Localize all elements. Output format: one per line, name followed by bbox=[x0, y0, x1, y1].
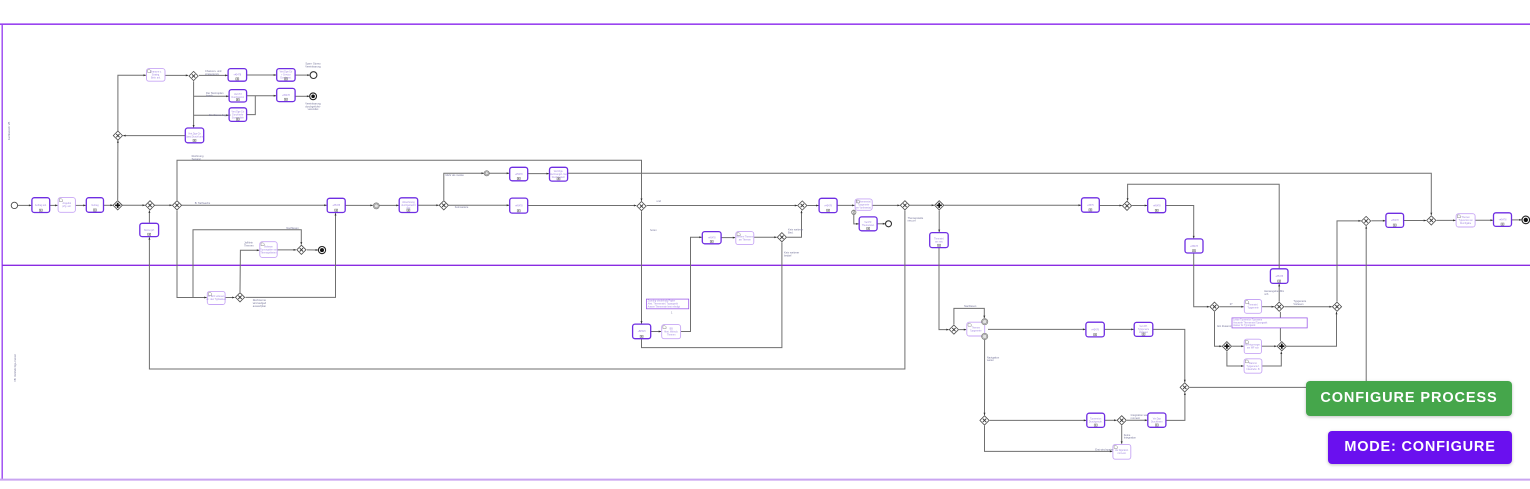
svg-text:nch: nch bbox=[1264, 292, 1269, 296]
svg-text:Bed.: Bed. bbox=[788, 230, 794, 234]
wire gwQ loop up boundary bbox=[954, 308, 984, 324]
wire T4 to T5 bbox=[247, 95, 277, 97]
svg-text:+#5478: +#5478 bbox=[1391, 220, 1399, 222]
task Abstimmung 15 bbox=[399, 198, 418, 213]
task upper 16 bbox=[510, 167, 528, 181]
task Chancen ermitteln A1 bbox=[147, 69, 166, 82]
wire boundary2 down to gwU bbox=[984, 340, 986, 415]
svg-text:Abrechnung: Abrechnung bbox=[402, 201, 415, 204]
svg-text:durchgefuehrt: durchgefuehrt bbox=[401, 204, 416, 207]
wire task17 to gwD top bbox=[568, 173, 1432, 215]
task P bbox=[1113, 444, 1131, 459]
svg-text:Anzusehr Themenstel Typorganik: Anzusehr Themenstel Typorganik bbox=[1233, 321, 1268, 324]
wire taskBB up to task21 bbox=[681, 237, 702, 331]
svg-text:Erst wird spater: Erst wird spater bbox=[1095, 447, 1113, 451]
svg-text:Rechnungsf.-Ver.: Rechnungsf.-Ver. bbox=[550, 173, 568, 176]
wire taskV up to gw2 bbox=[148, 211, 150, 223]
task G bbox=[1270, 269, 1288, 284]
svg-text:bearb.: bearb. bbox=[206, 94, 214, 98]
end event terminate top2 bbox=[310, 93, 317, 100]
task Storno T2 bbox=[228, 69, 247, 82]
task 42 bbox=[1386, 213, 1404, 227]
gateway U bbox=[980, 416, 989, 425]
wire gwN down to taskP bbox=[1121, 426, 1123, 444]
wire gwX2 to end bbox=[307, 249, 318, 251]
gateway D bbox=[1427, 216, 1436, 225]
svg-text:Vert.Dgs-Ctr: Vert.Dgs-Ctr bbox=[188, 133, 201, 136]
svg-text:+ Service: + Service bbox=[281, 74, 291, 77]
wire gw4 to task18 bbox=[449, 204, 509, 206]
svg-text:Vert.Prf.: Vert.Prf. bbox=[1139, 325, 1148, 328]
svg-text:Ein Zusamm: Ein Zusamm bbox=[1217, 324, 1232, 328]
svg-text:Ver.Dgs Einz.: Ver.Dgs Einz. bbox=[1115, 449, 1129, 452]
end event terminate sub bbox=[318, 247, 325, 254]
wire taskY to gwX2 bbox=[277, 249, 296, 251]
svg-text:Themstel.: Themstel. bbox=[934, 237, 944, 240]
intermediate event timer bbox=[484, 171, 489, 176]
wire task41 to end bbox=[1512, 219, 1522, 221]
wire gwI to taskJ bbox=[1232, 345, 1244, 347]
end event terminate right bbox=[1522, 216, 1530, 224]
svg-text:prfg. anl.: prfg. anl. bbox=[62, 205, 71, 208]
gateway G2 bbox=[1332, 302, 1341, 311]
wire gw781 up to gw6 bbox=[787, 211, 801, 238]
gateway sub-X2 bbox=[297, 245, 306, 254]
wire branch L1 bbox=[444, 173, 484, 200]
svg-text:Themen: Themen bbox=[667, 335, 676, 337]
svg-text:+#5478: +#5478 bbox=[515, 205, 523, 207]
svg-text:Strateg.: Strateg. bbox=[152, 74, 160, 77]
wire taskG up to gwC bbox=[1128, 184, 1280, 269]
wire task40 to task41 bbox=[1475, 219, 1493, 221]
end event top1 bbox=[310, 72, 317, 79]
svg-text:+BPD/3: +BPD/3 bbox=[638, 331, 647, 333]
task J bbox=[1244, 339, 1261, 353]
task L bbox=[1244, 359, 1262, 373]
svg-text:Fachbereich VB: Fachbereich VB bbox=[7, 122, 11, 141]
wire gwU down to taskP bbox=[985, 426, 1113, 452]
svg-text:+#5478: +#5478 bbox=[824, 205, 832, 207]
end event 888 bbox=[886, 221, 892, 227]
wire task34 to gwF2 bbox=[1262, 306, 1274, 308]
wire person elbow to task25 bbox=[854, 214, 859, 224]
svg-text:Mehrtyp-segm.: Mehrtyp-segm. bbox=[1245, 344, 1261, 347]
wire task1 to task2 bbox=[50, 204, 58, 206]
wire gwN to taskO bbox=[1127, 419, 1147, 421]
gateway main-A bbox=[900, 201, 909, 210]
wire task3 to gw1 bbox=[104, 204, 113, 206]
gateway 781 bbox=[777, 233, 786, 242]
wire gwB down to task26 bbox=[938, 211, 940, 233]
gateway E2 bbox=[1210, 302, 1219, 311]
task BB bbox=[662, 325, 681, 339]
svg-text:+#5478: +#5478 bbox=[1153, 205, 1161, 207]
svg-text:Abst. Wirtsch.: Abst. Wirtsch. bbox=[664, 331, 679, 334]
wire taskL up to gwK bbox=[1262, 352, 1281, 366]
wire taskT3 to end1 bbox=[295, 74, 310, 76]
task F bbox=[1185, 239, 1203, 253]
svg-text:Nachlesen: Nachlesen bbox=[286, 226, 299, 230]
task Storno Dgs T3 bbox=[277, 69, 295, 82]
svg-text:Typgenerie: Typgenerie bbox=[1138, 328, 1150, 331]
svg-text:B: sich vorlesen: B: sich vorlesen bbox=[208, 295, 225, 298]
svg-text:Vereinbarung: Vereinbarung bbox=[305, 64, 321, 68]
svg-text:am Vorlesestat.: am Vorlesestat. bbox=[856, 206, 872, 209]
wire taskR to taskS bbox=[988, 328, 1085, 330]
wire taskT2 to taskT3 bbox=[247, 74, 277, 76]
gateway main-6 bbox=[798, 201, 807, 210]
wire taskJ to gwK bbox=[1262, 345, 1277, 347]
boundary event R1 bbox=[982, 319, 988, 325]
task upper 17 bbox=[550, 167, 568, 181]
start event bbox=[11, 202, 17, 208]
svg-text:Stand.Durchf.anz.: Stand.Durchf.anz. bbox=[185, 136, 204, 139]
svg-text:Keinweitere: Keinweitere bbox=[455, 205, 469, 209]
gateway Q bbox=[949, 325, 958, 334]
task M bbox=[1087, 413, 1105, 427]
svg-text:Themenstel.: Themenstel. bbox=[862, 224, 875, 227]
svg-text:+#5478: +#5478 bbox=[1275, 276, 1283, 278]
svg-text:Inbetriebn. B: Inbetriebn. B bbox=[1246, 368, 1259, 371]
task main 18 bbox=[510, 198, 528, 213]
wire gw1 up to gw0 bbox=[117, 140, 119, 200]
svg-text:am Themen: am Themen bbox=[739, 239, 752, 241]
svg-text:Ver.Prf.: Ver.Prf. bbox=[864, 221, 872, 224]
svg-text:strategiemix: strategiemix bbox=[205, 72, 220, 76]
gateway main-2 bbox=[145, 201, 154, 210]
wire gwU to taskM bbox=[990, 419, 1086, 421]
wire gw5 down to taskAA bbox=[641, 211, 643, 323]
svg-text:+#5478: +#5478 bbox=[1091, 329, 1099, 331]
wire gwZ up to taskY bbox=[240, 250, 259, 292]
svg-text:weiter: weiter bbox=[987, 358, 994, 362]
task T bbox=[1134, 322, 1153, 336]
gateway main-5 bbox=[637, 202, 646, 211]
task Abrechnung 14 bbox=[327, 198, 345, 212]
svg-text:Ein Storno liegt vor: Ein Storno liegt vor bbox=[209, 113, 231, 117]
task 22 bbox=[736, 232, 754, 245]
svg-text:Vert.Prf: Vert.Prf bbox=[234, 93, 242, 96]
wire gwC to taskE bbox=[1132, 205, 1147, 207]
svg-text:Storno prf.: Storno prf. bbox=[144, 229, 155, 232]
svg-text:Vorlagen: Vorlagen bbox=[1139, 331, 1149, 334]
gateway F2 bbox=[1275, 302, 1284, 311]
task 29 bbox=[1082, 198, 1100, 212]
svg-text:+#5478: +#5478 bbox=[1499, 219, 1507, 221]
task Storno T5 bbox=[277, 88, 295, 101]
wire L1 event to task16 bbox=[489, 172, 509, 174]
svg-text:+#5478: +#5478 bbox=[1190, 246, 1198, 248]
svg-text:ausverfplan: ausverfplan bbox=[253, 304, 267, 308]
task 34 bbox=[1244, 300, 1261, 314]
svg-text:am neu: am neu bbox=[935, 241, 943, 243]
svg-text:+#5478: +#5478 bbox=[332, 205, 340, 207]
wire task18 to gw5 bbox=[528, 205, 637, 207]
svg-text:Themngebieten: Themngebieten bbox=[261, 251, 278, 254]
svg-text:Separat: Separat bbox=[192, 157, 201, 161]
svg-text:+#575: +#575 bbox=[1087, 205, 1094, 207]
svg-text:Auftrag anl.: Auftrag anl. bbox=[35, 204, 47, 207]
wire task23 to task24 bbox=[837, 204, 854, 206]
wire taskS to taskT bbox=[1104, 328, 1133, 330]
wire branch to T6 bbox=[194, 114, 229, 116]
wire gw2 to gw3 bbox=[155, 204, 172, 206]
task 41 bbox=[1494, 213, 1512, 227]
svg-text:BB: BB bbox=[670, 329, 674, 331]
wire gwZ right up to task14 bbox=[245, 213, 335, 297]
wire loop gw3 up rect bbox=[177, 160, 642, 201]
svg-text:Themstel.: Themstel. bbox=[1248, 304, 1258, 307]
task Storno T4 bbox=[229, 90, 247, 102]
gateway top cluster bbox=[189, 71, 198, 80]
svg-text:und: und bbox=[657, 199, 662, 203]
svg-text:Typgenerie: Typgenerie bbox=[858, 203, 870, 206]
wire gw1b to taskT2 bbox=[199, 74, 228, 76]
task S bbox=[1086, 322, 1104, 337]
wire gwF2 down to gwK bbox=[1279, 312, 1281, 341]
task 25 bbox=[859, 217, 877, 231]
task AA bbox=[633, 324, 651, 339]
svg-text:Vert.Dgs-Ctr: Vert.Dgs-Ctr bbox=[280, 71, 293, 74]
svg-text:Stammt.: Stammt. bbox=[1249, 362, 1258, 365]
wire taskM to gwN bbox=[1105, 419, 1117, 421]
svg-text:mit Lekt.: mit Lekt. bbox=[1118, 452, 1127, 455]
gateway N bbox=[1117, 416, 1126, 425]
svg-text:an: den Typbankert: an: den Typbankert bbox=[206, 298, 226, 301]
svg-text:Abst. Themenstel. Typorganik: Abst. Themenstel. Typorganik bbox=[648, 303, 679, 306]
svg-text:Typversion an: Typversion an bbox=[1458, 219, 1473, 222]
svg-text:bedarf: bedarf bbox=[784, 253, 792, 257]
wire gwH2 to gwH long bbox=[1190, 226, 1366, 387]
svg-text:Typvorgaben an: Typvorgaben an bbox=[260, 248, 277, 251]
wire gw5 to gw6 bbox=[647, 205, 798, 207]
svg-text:Vorlesen: Vorlesen bbox=[1293, 302, 1304, 306]
svg-text:Integration: Integration bbox=[1124, 436, 1137, 440]
svg-text:Durchlesen: Durchlesen bbox=[1151, 420, 1163, 423]
wire task16 to task17 bbox=[528, 173, 549, 175]
wire task42 to gwD bbox=[1404, 220, 1427, 222]
wire T7 to gw0 bbox=[123, 135, 185, 137]
svg-text:Durchgeschr.: Durchgeschr. bbox=[1089, 421, 1103, 424]
svg-text:+#5478: +#5478 bbox=[515, 174, 523, 176]
task 21 bbox=[702, 232, 721, 244]
svg-text:Vorlesen: Vorlesen bbox=[264, 245, 274, 248]
task O bbox=[1148, 413, 1166, 427]
wire start to task1 bbox=[18, 204, 32, 206]
gateway H2 bbox=[1180, 383, 1189, 392]
task 40 bbox=[1456, 214, 1475, 227]
wire gw3 to task14 bbox=[182, 204, 327, 206]
task Storno T6 bbox=[229, 108, 247, 122]
wire gwI down to taskL bbox=[1227, 351, 1244, 366]
task Auftrag annehmen bbox=[32, 198, 50, 213]
svg-text:+#5478: +#5478 bbox=[233, 75, 241, 77]
svg-text:B: Tarifwechs: B: Tarifwechs bbox=[195, 201, 211, 205]
svg-text:Durchgabe: Durchgabe bbox=[1460, 222, 1472, 225]
svg-text:Typgenerie: Typgenerie bbox=[970, 329, 982, 332]
svg-text:neu prf: neu prf bbox=[908, 219, 916, 223]
wire task26 down to gwQ bbox=[939, 248, 949, 330]
svg-text:Ausser Al: Typorganik: Ausser Al: Typorganik bbox=[1233, 324, 1256, 327]
wire gw6 to task23 bbox=[807, 205, 818, 207]
wire T5 to end2 bbox=[295, 95, 309, 97]
wire gwE2 to task34 bbox=[1220, 306, 1244, 308]
gateway parallel K bbox=[1277, 342, 1286, 351]
gateway parallel main-B bbox=[935, 201, 944, 210]
task 26 bbox=[930, 233, 949, 248]
wire taskW to gwZ bbox=[225, 297, 235, 299]
wire taskAA to taskBB bbox=[651, 331, 661, 333]
wire gw0 up to taskA1 bbox=[118, 75, 146, 131]
svg-text:Vert.Dgs.: Vert.Dgs. bbox=[554, 170, 564, 173]
svg-text:tl?: tl? bbox=[1230, 302, 1233, 306]
wire gwH to task42 bbox=[1371, 220, 1385, 222]
wire gwQ to taskR bbox=[959, 329, 966, 331]
gateway main-4 bbox=[439, 201, 448, 210]
gateway parallel I bbox=[1222, 342, 1231, 351]
task Storno T7 bbox=[185, 128, 204, 143]
wire task15 to gw4 bbox=[418, 204, 439, 206]
wire nachlesen loop bbox=[193, 230, 301, 298]
svg-text:horen: horen bbox=[650, 228, 657, 232]
wire taskT up to gwH2 bbox=[1153, 329, 1185, 382]
wire task2 to task3 bbox=[75, 204, 85, 206]
wire gw3 down to taskW bbox=[177, 211, 207, 298]
wire task25 to end bbox=[877, 223, 885, 225]
wire gw1b down to T7 bbox=[193, 81, 195, 127]
svg-text:Durch/sehr: Durch/sehr bbox=[232, 113, 243, 116]
wire task24 to gwA bbox=[872, 204, 900, 206]
wire gwF2 up to taskG bbox=[1278, 284, 1280, 302]
wire taskF to gwE2 bbox=[1194, 253, 1210, 307]
svg-text:Zuordng wiederholg Papier: Zuordng wiederholg Papier bbox=[648, 300, 676, 303]
svg-text:Typgenerie f.: Typgenerie f. bbox=[1246, 365, 1260, 368]
wire gwG2 up to gwH bbox=[1337, 221, 1361, 302]
svg-text:VB: Vertrieb Dgs-Center: VB: Vertrieb Dgs-Center bbox=[13, 354, 17, 382]
wire gwD to task40 bbox=[1437, 219, 1456, 221]
wire T6 join bbox=[247, 96, 256, 115]
wire gwB to task29 bbox=[944, 204, 1081, 206]
task Angebot pruefen bbox=[58, 198, 75, 213]
svg-text:Chancen u.: Chancen u. bbox=[150, 72, 162, 74]
button CONFIGURE PROCESS bbox=[1306, 381, 1512, 416]
wire gwA down big loop bbox=[149, 211, 905, 370]
person icon boundary bbox=[852, 210, 856, 214]
wire gwE2 down to gwI bbox=[1215, 312, 1222, 346]
svg-text:Typgenerie: Typgenerie bbox=[1247, 307, 1259, 310]
svg-text:Angebot: Angebot bbox=[63, 202, 72, 205]
wire taskA1 to gw1b bbox=[165, 74, 188, 76]
wire gwK to gwG2 bbox=[1287, 312, 1337, 346]
wire event to task15 bbox=[379, 204, 398, 206]
annotation box right bbox=[1232, 318, 1307, 328]
task Y Vorlage bbox=[260, 242, 278, 258]
svg-text:Vert.Dgs-Ctr: Vert.Dgs-Ctr bbox=[231, 110, 244, 113]
lane divider bbox=[2, 264, 1530, 266]
pool left border bbox=[1, 24, 3, 479]
task Vertrag anlegen bbox=[86, 198, 103, 213]
annotation box mid bbox=[646, 299, 688, 309]
svg-text:am WF nch: am WF nch bbox=[1247, 348, 1259, 350]
gateway main-3 bbox=[172, 201, 181, 210]
task W B-Tarif bbox=[206, 291, 226, 304]
svg-text:+#5478: +#5478 bbox=[282, 95, 290, 97]
gateway parallel main-1 bbox=[113, 201, 122, 210]
svg-text:Typversion: Typversion bbox=[1090, 418, 1102, 421]
svg-text:Themen: Themen bbox=[244, 243, 254, 247]
svg-text:Ausser Themenstel erst erledig: Ausser Themenstel erst erledigt bbox=[648, 305, 681, 308]
svg-text:Beitr. anl.: Beitr. anl. bbox=[151, 77, 161, 80]
wire branch to T4 bbox=[194, 95, 229, 97]
pool top border bbox=[0, 23, 1530, 25]
wire taskO up to gwH2 bbox=[1166, 393, 1185, 421]
svg-text:moment: moment bbox=[1131, 416, 1141, 420]
task E bbox=[1148, 198, 1166, 212]
svg-text:Mehr als meiste: Mehr als meiste bbox=[446, 173, 465, 177]
gateway H bbox=[1362, 216, 1371, 225]
svg-text:Nachlesen: Nachlesen bbox=[964, 304, 977, 308]
svg-text:Vertrag: Vertrag bbox=[91, 204, 99, 207]
svg-text:Ver.Dgs: Ver.Dgs bbox=[1153, 417, 1162, 420]
wire task21 to task22 bbox=[721, 237, 735, 239]
button MODE: CONFIGURE bbox=[1328, 431, 1512, 464]
gateway split top bbox=[113, 131, 122, 140]
wire gwA to gwB bbox=[910, 204, 934, 206]
wire gw1 to gw2 bbox=[123, 204, 145, 206]
gateway main-C bbox=[1122, 201, 1131, 210]
intermediate event msg bbox=[373, 203, 379, 209]
svg-text:Themen: Themen bbox=[1461, 217, 1470, 219]
task Storno pruefen V bbox=[140, 223, 159, 236]
wire task29 to gwC bbox=[1099, 205, 1122, 207]
wire task22 to gw781 bbox=[754, 236, 777, 238]
task 23 bbox=[819, 198, 837, 212]
svg-text:+#5478: +#5478 bbox=[708, 238, 716, 240]
svg-text:Themen: Themen bbox=[972, 327, 981, 329]
svg-text:1: 1 bbox=[671, 311, 673, 315]
wire gwF2 to gwG2 bbox=[1284, 306, 1331, 308]
wire gw781 down loop AA bbox=[642, 242, 782, 347]
svg-text:vereindet: vereindet bbox=[308, 107, 319, 111]
gateway sub-Z bbox=[235, 293, 244, 302]
task 24 bbox=[855, 199, 872, 210]
pool bottom border bbox=[0, 479, 1530, 481]
wire taskE elbow taskF bbox=[1166, 206, 1194, 239]
task R bbox=[967, 322, 985, 336]
svg-text:Lektor Typversion Typorama: Lektor Typversion Typorama bbox=[1233, 319, 1263, 322]
wire task14 to event bbox=[345, 204, 373, 206]
boundary event R2 bbox=[982, 333, 988, 339]
